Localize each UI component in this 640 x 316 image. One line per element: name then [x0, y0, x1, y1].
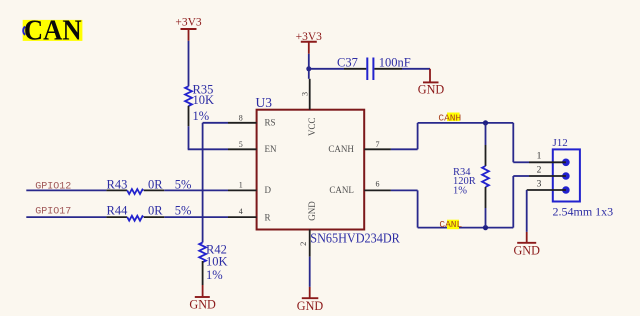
svg-text:2.54mm 1x3: 2.54mm 1x3 [553, 204, 614, 218]
svg-text:CAN: CAN [24, 16, 82, 47]
svg-text:6: 6 [376, 180, 380, 189]
svg-text:3: 3 [299, 92, 309, 96]
svg-text:CANL: CANL [439, 219, 462, 230]
svg-text:1%: 1% [453, 186, 467, 197]
svg-text:GND: GND [189, 298, 216, 312]
svg-text:D: D [265, 185, 272, 195]
svg-text:GND: GND [513, 244, 540, 258]
svg-text:CANH: CANH [328, 144, 354, 154]
svg-text:GND: GND [418, 83, 445, 97]
svg-text:5%: 5% [175, 178, 192, 192]
svg-text:2: 2 [298, 242, 308, 246]
svg-text:5: 5 [239, 140, 243, 149]
svg-text:R: R [265, 212, 271, 222]
svg-text:GND: GND [307, 201, 317, 221]
svg-text:SN65HVD234DR: SN65HVD234DR [310, 231, 400, 246]
svg-text:+3V3: +3V3 [175, 17, 202, 29]
svg-text:100nF: 100nF [379, 55, 411, 69]
svg-text:R43: R43 [107, 178, 128, 192]
svg-text:CANH: CANH [438, 113, 461, 124]
svg-text:0R: 0R [148, 178, 163, 192]
svg-text:RS: RS [265, 117, 276, 127]
svg-text:1: 1 [537, 151, 542, 161]
svg-text:U3: U3 [256, 95, 273, 110]
svg-text:R44: R44 [107, 203, 129, 217]
svg-text:1: 1 [239, 181, 243, 190]
svg-text:2: 2 [537, 165, 542, 175]
svg-text:J12: J12 [553, 137, 568, 149]
svg-text:GPIO17: GPIO17 [35, 207, 71, 218]
svg-text:1%: 1% [206, 268, 223, 282]
svg-text:3: 3 [537, 180, 542, 190]
svg-text:C37: C37 [337, 55, 358, 69]
svg-text:10K: 10K [193, 93, 215, 107]
svg-text:CANL: CANL [329, 185, 354, 195]
svg-text:1%: 1% [193, 109, 210, 123]
svg-text:EN: EN [265, 144, 277, 154]
svg-text:7: 7 [376, 140, 380, 149]
svg-text:0R: 0R [148, 203, 163, 217]
svg-text:VCC: VCC [307, 118, 317, 137]
svg-text:10K: 10K [206, 255, 228, 269]
svg-text:GND: GND [297, 299, 324, 313]
svg-text:5%: 5% [175, 203, 192, 217]
svg-text:8: 8 [239, 113, 243, 122]
svg-text:4: 4 [239, 207, 243, 216]
